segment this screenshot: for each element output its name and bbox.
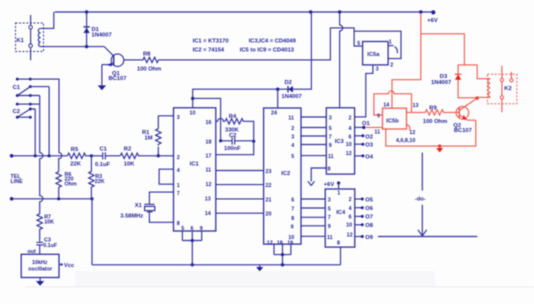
svg-text:out: out	[28, 249, 37, 255]
IC IC1 KT3170 box	[174, 108, 216, 231]
wire IC5b pin13 stub to R9	[407, 111, 426, 113]
svg-text:O2: O2	[365, 134, 373, 140]
relay K1 dashed box	[16, 23, 44, 52]
node O7	[361, 215, 364, 218]
svg-text:9: 9	[377, 114, 380, 120]
svg-text:12: 12	[347, 233, 353, 239]
svg-text:1N4007: 1N4007	[92, 33, 112, 39]
svg-text:R8: R8	[143, 52, 151, 58]
svg-text:O9: O9	[365, 235, 373, 241]
svg-text:-do-: -do-	[415, 196, 426, 202]
resistor R3 22K	[89, 156, 94, 199]
relay K2 contacts	[501, 66, 503, 112]
wire IC2 pin11 to IC3 pin3	[301, 116, 326, 118]
svg-text:O8: O8	[365, 223, 373, 229]
wire IC2 pin3 to IC3 pin7	[301, 135, 326, 137]
svg-text:0.1uF: 0.1uF	[43, 243, 58, 249]
svg-text:Vcc: Vcc	[64, 263, 75, 269]
capacitor C3 0.1uF	[36, 242, 43, 254]
wire IC3 pin4 output O1	[355, 126, 364, 128]
svg-text:22K: 22K	[70, 161, 81, 167]
diode D2 1N4007	[278, 12, 312, 89]
svg-text:7: 7	[177, 191, 180, 197]
svg-text:3: 3	[291, 135, 294, 141]
node red ground junction	[438, 145, 441, 148]
wire D2 to IC2 pin24	[277, 89, 279, 108]
resistor R1 1M with pin3 stub	[158, 116, 173, 156]
resistor R8 100 Ohm	[142, 57, 160, 62]
wire IC2 pin10 to IC4 pin11	[301, 235, 325, 237]
10kHz oscillator box	[21, 254, 59, 277]
wire IC2 pin7 to IC4 pin5	[301, 207, 325, 209]
svg-text:12: 12	[409, 130, 415, 136]
svg-text:IC2 = 74154: IC2 = 74154	[193, 48, 225, 54]
svg-text:9: 9	[200, 226, 203, 232]
wire IC2 pin2 to IC3 pin5	[301, 127, 326, 129]
wire IC2 pin8 to IC4 pin7	[301, 216, 325, 218]
svg-text:100 Ohm: 100 Ohm	[137, 66, 161, 72]
wire +6V rail to IC3 top with hop	[340, 12, 343, 108]
wire IC5b pin9-pin13 loop with hop	[374, 91, 412, 115]
svg-text:LINE: LINE	[11, 179, 24, 185]
wire IC4 pin6 output O7	[355, 215, 361, 217]
node C2 wiper junction	[34, 154, 37, 157]
svg-text:11: 11	[288, 116, 294, 122]
wire K2 coil bottom to junction	[477, 96, 490, 98]
svg-text:BC107: BC107	[109, 76, 127, 82]
switch C2 relay contact	[16, 103, 32, 119]
svg-text:oscillator: oscillator	[28, 267, 52, 273]
svg-text:12: 12	[346, 151, 352, 157]
node IC4 +6V stub	[337, 181, 340, 184]
transistor Q2 BC107	[456, 106, 469, 119]
wire IC3 pin12 output O4	[355, 155, 362, 157]
wire IC4 pin12 output O9	[355, 236, 361, 238]
ground oscillator	[39, 278, 41, 282]
wire bottom ground rail	[92, 264, 341, 266]
relay K1 coil	[38, 28, 40, 46]
node rail/IC2 junction	[281, 263, 284, 266]
svg-text:10K: 10K	[124, 162, 135, 168]
node +6V rail junction dots	[85, 10, 436, 14]
wire IC2 pin4 to IC3 pin9	[301, 144, 326, 146]
node O8	[361, 223, 364, 226]
wire +6V to IC5b pin14	[392, 14, 421, 109]
wire IC3 pin10 output O3	[355, 143, 362, 145]
svg-text:O6: O6	[365, 206, 373, 212]
svg-text:3: 3	[329, 116, 332, 122]
crystal X1 3.58MHz with pins 7,8	[144, 192, 173, 222]
svg-text:K1: K1	[17, 38, 25, 44]
svg-text:C2: C2	[229, 133, 236, 139]
svg-text:1N4007: 1N4007	[282, 94, 302, 100]
svg-text:11: 11	[374, 130, 380, 136]
switch C1 relay contact	[16, 78, 32, 97]
svg-text:5: 5	[291, 154, 294, 160]
svg-text:IC1: IC1	[190, 162, 200, 168]
svg-text:6: 6	[349, 134, 352, 140]
wire IC2 pin6 to IC4 pin3	[301, 198, 325, 200]
svg-text:9: 9	[291, 224, 294, 230]
svg-text:IC4: IC4	[336, 210, 346, 216]
svg-text:2: 2	[349, 115, 352, 121]
node IC1 bracket junction	[191, 239, 194, 242]
resistor R7 10K	[37, 213, 42, 241]
svg-text:23: 23	[266, 169, 272, 175]
svg-text:100 Ohm: 100 Ohm	[423, 119, 447, 125]
node rail/IC1 junction	[191, 263, 194, 266]
wire +6V branch to D3/K2	[421, 34, 491, 79]
node R5/R3/C1 junction	[90, 154, 93, 157]
wire IC1 pin13 to IC2 pin21	[216, 198, 264, 200]
svg-text:0.1uF: 0.1uF	[95, 162, 111, 168]
node O4	[361, 154, 364, 157]
svg-text:K2: K2	[504, 86, 511, 92]
svg-text:C2: C2	[13, 109, 20, 115]
svg-text:O1: O1	[362, 121, 370, 127]
svg-text:17: 17	[206, 153, 212, 159]
svg-text:10: 10	[190, 111, 196, 117]
wire R8 to IC5a pin5	[160, 28, 363, 60]
svg-text:7: 7	[291, 207, 294, 213]
wire IC1 pin10 to D2 net	[193, 89, 278, 108]
svg-text:7: 7	[328, 215, 331, 221]
svg-text:BC107: BC107	[454, 128, 472, 134]
svg-text:21: 21	[266, 197, 272, 203]
node D3/K2/Q2 junction	[476, 96, 479, 99]
wire O1 node to IC5b pin11	[366, 126, 383, 128]
wire IC1 pin14 to IC2 pin20	[216, 212, 264, 214]
node pin18 junction	[219, 139, 222, 142]
svg-text:R2: R2	[124, 147, 131, 153]
svg-text:IC5b: IC5b	[386, 119, 399, 125]
IC IC3 CD4049 box	[326, 108, 354, 174]
svg-text:+6V: +6V	[427, 18, 438, 24]
svg-text:13: 13	[205, 196, 211, 202]
node steering RC junction	[252, 140, 255, 143]
wire C1 bottom / C2 top to oscillator column with hops	[30, 96, 43, 214]
wire IC5a pin1 stub	[388, 46, 397, 54]
node C1 wiper junction	[48, 154, 51, 157]
svg-text:3: 3	[376, 67, 379, 73]
svg-text:8: 8	[291, 216, 294, 222]
svg-text:R4: R4	[229, 114, 237, 120]
svg-text:1: 1	[389, 40, 392, 46]
wire +6V top rail	[55, 11, 434, 13]
flip-flop IC5b box	[383, 108, 407, 129]
relay K1 contact armature	[30, 15, 32, 60]
wire TEL top line	[12, 155, 68, 157]
svg-text:2: 2	[177, 155, 180, 161]
svg-text:100nF: 100nF	[224, 146, 241, 152]
svg-text:10kHz: 10kHz	[32, 260, 48, 266]
resistor R4 330K	[225, 119, 254, 142]
wire IC3 pin8 to low arrow	[308, 168, 326, 186]
svg-text:+6V: +6V	[324, 182, 335, 188]
wire K1 coil bottom to D1 and Q1	[41, 46, 105, 48]
node O5	[361, 198, 364, 201]
node O2	[361, 134, 364, 137]
svg-text:O4: O4	[365, 154, 373, 160]
wire IC4 pin10 output O8	[355, 224, 361, 226]
svg-text:18: 18	[206, 140, 212, 146]
node TEL line terminal top	[10, 154, 14, 158]
diode D3 1N4007	[458, 65, 477, 98]
wire IC4 pin4 output O6	[355, 207, 361, 209]
capacitor C1 0.1uF	[103, 152, 121, 159]
wire IC1 pins 4-1 loop	[159, 169, 173, 184]
svg-text:11: 11	[327, 235, 333, 241]
svg-text:6: 6	[291, 198, 294, 204]
wire K1 coil top to rail	[41, 12, 54, 28]
wire IC5a pin3 to IC3 pin2	[355, 65, 373, 117]
node pin10 branch	[191, 97, 194, 100]
svg-text:4: 4	[349, 126, 352, 132]
wire IC1 pin17 to steering node	[216, 141, 254, 154]
wire IC4 pin1 +6V stub	[338, 183, 340, 189]
svg-text:2: 2	[291, 126, 294, 132]
svg-text:4,6,8,10: 4,6,8,10	[396, 138, 415, 144]
node O6	[361, 206, 364, 209]
node IC2 bracket junction	[281, 253, 284, 256]
resistor R6 220 Ohm	[56, 171, 61, 198]
svg-text:3: 3	[177, 115, 180, 121]
svg-text:12: 12	[206, 182, 212, 188]
wire IC2 pins 12,18,19 bracket to rail	[274, 244, 291, 265]
svg-text:C1: C1	[100, 147, 108, 153]
wire IC5a loop pin5-pin2	[354, 31, 401, 58]
wire lower TEL to bottom ground rail	[91, 199, 93, 265]
wire pin10 branch to pin18 node	[193, 98, 221, 140]
resistor R5 22K	[68, 153, 103, 158]
svg-text:6: 6	[349, 215, 352, 221]
svg-text:1: 1	[177, 183, 180, 189]
svg-text:18: 18	[277, 241, 283, 247]
wire O9 long line	[378, 236, 477, 238]
wire C1 top to R6 column with hop	[30, 79, 62, 171]
svg-text:19: 19	[287, 241, 293, 247]
wire IC4 pin2 output O5	[355, 198, 361, 200]
relay K2 coil	[488, 79, 490, 97]
wire IC1 pins 5,6,9 bracket to ground rail	[182, 231, 201, 265]
ground red local	[439, 146, 441, 148]
IC IC2 74154 box	[264, 108, 301, 244]
svg-text:D2: D2	[285, 80, 292, 86]
resistor R9 100 Ohm	[425, 110, 456, 115]
svg-text:12: 12	[267, 241, 273, 247]
svg-text:8: 8	[328, 167, 331, 173]
svg-text:IC5a: IC5a	[367, 52, 380, 58]
svg-text:IC1 = KT3170: IC1 = KT3170	[193, 38, 229, 44]
svg-text:5: 5	[357, 41, 360, 47]
wire IC1 pin12 to IC2 pin22	[216, 184, 264, 186]
svg-text:4: 4	[349, 206, 352, 212]
op-amp/flip-flop IC5a box	[363, 42, 389, 65]
svg-text:10K: 10K	[44, 219, 54, 225]
svg-text:O5: O5	[365, 197, 373, 203]
svg-text:9: 9	[328, 224, 331, 230]
wire IC2 pin9 to IC4 pin9	[301, 225, 325, 227]
svg-text:20: 20	[266, 212, 272, 218]
diode D1 1N4007	[86, 12, 88, 47]
svg-text:2: 2	[390, 63, 393, 69]
svg-text:22: 22	[266, 183, 272, 189]
svg-text:3: 3	[328, 198, 331, 204]
svg-text:8: 8	[337, 240, 340, 246]
svg-text:R5: R5	[71, 147, 79, 153]
svg-text:5: 5	[181, 226, 184, 232]
svg-text:X1: X1	[135, 203, 143, 209]
svg-text:O3: O3	[365, 143, 373, 149]
IC IC4 CD4049 box	[325, 189, 355, 247]
svg-text:11: 11	[328, 154, 334, 160]
svg-text:4: 4	[291, 143, 294, 149]
wire IC3 pin6 output O2	[355, 135, 362, 137]
resistor R2 10K	[120, 153, 173, 158]
wire IC1 pin11 to IC2 pin23	[216, 170, 264, 172]
svg-text:IC3: IC3	[335, 139, 344, 145]
svg-text:5: 5	[329, 126, 332, 132]
svg-text:IC2: IC2	[281, 171, 290, 177]
transistor Q1 BC107	[111, 54, 124, 67]
node R3 bottom junction	[90, 197, 93, 200]
node R1/pin2 junction	[157, 154, 160, 157]
svg-text:7: 7	[329, 135, 332, 141]
node O3	[361, 143, 364, 146]
svg-text:14: 14	[383, 103, 389, 109]
bottom faint band	[75, 271, 435, 287]
svg-text:1M: 1M	[145, 136, 153, 142]
wire IC2 pin5 to IC3 pin11	[301, 155, 326, 157]
svg-text:1: 1	[337, 191, 340, 197]
svg-text:16: 16	[206, 120, 212, 126]
svg-text:Ohm: Ohm	[65, 181, 77, 187]
node D2 cathode junction	[276, 88, 279, 91]
node R6 bottom junction	[57, 197, 60, 200]
wire ditto marker	[418, 153, 427, 236]
svg-text:14: 14	[205, 211, 211, 217]
svg-text:1N4007: 1N4007	[431, 80, 451, 86]
svg-text:13: 13	[413, 103, 419, 109]
wire IC5b pin12 stub	[407, 125, 410, 131]
relay K2 dashed box	[487, 74, 516, 103]
capacitor C2 100nF	[221, 137, 254, 144]
wire IC5b grounded pins to local ground rail	[386, 120, 476, 146]
svg-text:22K: 22K	[95, 179, 105, 185]
wire IC4 pin8 to ground rail	[340, 247, 342, 265]
svg-text:24: 24	[271, 110, 277, 116]
wire oscillator Vcc stub	[59, 264, 61, 266]
ground Q1 emitter	[101, 65, 103, 86]
wire pin16 stub with hop	[216, 118, 225, 121]
svg-text:11: 11	[206, 168, 212, 174]
svg-text:IC5 to IC9 = CD4013: IC5 to IC9 = CD4013	[240, 48, 294, 54]
svg-text:R9: R9	[429, 106, 436, 112]
svg-text:4: 4	[177, 168, 180, 174]
svg-text:10: 10	[346, 142, 352, 148]
svg-text:IC3,IC4 = CD4049: IC3,IC4 = CD4049	[249, 38, 296, 44]
svg-text:5: 5	[328, 207, 331, 213]
node O1	[362, 126, 365, 129]
node TEL line terminal bottom	[10, 197, 14, 201]
svg-text:2: 2	[349, 197, 352, 203]
svg-text:O7: O7	[365, 215, 373, 221]
ground bottom rail symbol	[259, 265, 261, 268]
svg-text:8: 8	[177, 221, 180, 227]
wire TEL bottom line	[12, 198, 92, 200]
wire C2 mid to TEL top	[30, 109, 35, 156]
svg-text:9: 9	[329, 143, 332, 149]
svg-text:10: 10	[346, 223, 352, 229]
node junction D1 bottom	[85, 45, 88, 48]
svg-text:C1: C1	[13, 85, 21, 91]
svg-text:6: 6	[191, 226, 194, 232]
wire C1 mid to TEL top	[30, 87, 49, 156]
svg-text:3.58MHz: 3.58MHz	[120, 213, 143, 219]
node O9	[361, 235, 364, 238]
